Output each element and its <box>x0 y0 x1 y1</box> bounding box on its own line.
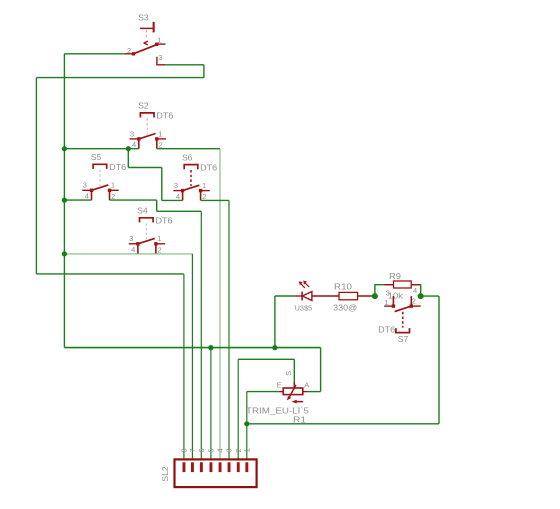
wire S6 pin2 right y200.4 <box>201 199 229 201</box>
junction at left rail y253.9 <box>62 251 67 256</box>
wire common rail to S5 pin4 <box>64 199 91 201</box>
wire S3 pin2 to left rail <box>64 53 124 55</box>
svg-text:4: 4 <box>131 245 135 254</box>
wire trimmer E horizontal <box>247 391 279 393</box>
svg-text:A: A <box>304 380 309 389</box>
junction at x246.8 y423.8 <box>244 421 249 426</box>
svg-text:S6: S6 <box>182 152 193 162</box>
wire common rail horizontal y347.6 <box>64 347 320 349</box>
wire right y211.3 <box>157 210 202 212</box>
wire R9 right to x439 <box>421 295 439 297</box>
wire to S6 pin4 y200.4 <box>162 199 183 201</box>
svg-text:4: 4 <box>176 192 180 201</box>
svg-text:S: S <box>284 371 293 376</box>
wire down x192.4 to connector pin 7 column <box>191 254 193 463</box>
svg-text:1: 1 <box>157 234 161 243</box>
svg-text:3: 3 <box>386 289 390 298</box>
svg-text:DT6: DT6 <box>156 216 173 226</box>
wire down x229 to connector pin 3 column <box>228 200 230 462</box>
connector pin 4 <box>219 462 222 472</box>
svg-text:4: 4 <box>216 448 225 452</box>
svg-text:S5: S5 <box>91 152 102 162</box>
connector pin 6 <box>200 462 203 472</box>
switch S3 <box>124 12 165 65</box>
svg-text:DT6: DT6 <box>156 111 173 121</box>
svg-text:DT6: DT6 <box>200 162 217 172</box>
svg-text:1: 1 <box>157 35 161 44</box>
svg-text:6: 6 <box>197 448 206 452</box>
junction at x374.9 y296.1 <box>372 293 378 299</box>
connector pin 8 <box>183 462 186 472</box>
wire far-left vertical x36.4 <box>35 78 37 274</box>
svg-text:4: 4 <box>85 192 89 201</box>
connector SL2 <box>160 459 257 487</box>
svg-text:SL2: SL2 <box>160 466 170 481</box>
wire y359.3 to trimmer wiper <box>238 358 294 360</box>
svg-text:U3$5: U3$5 <box>295 303 313 312</box>
wire LED anode horizontal <box>275 295 295 297</box>
junction at x420.7 y296.1 <box>418 293 424 299</box>
junction at x274.9 y347.6 <box>272 345 277 350</box>
wire down x210.9 to connector pin 4 column <box>210 348 212 463</box>
wire horizontal y423.8 <box>247 423 439 425</box>
svg-text:S3: S3 <box>138 12 149 22</box>
LED U3$5 <box>295 281 339 313</box>
wire trimmer A horizontal <box>308 391 321 393</box>
svg-text:S2: S2 <box>138 101 149 111</box>
svg-text:3: 3 <box>174 181 178 190</box>
svg-text:R10: R10 <box>334 283 353 292</box>
wire common rail to S2 pin4 <box>64 148 138 150</box>
svg-text:E: E <box>277 380 282 389</box>
svg-text:10k: 10k <box>388 290 404 300</box>
junction at left rail y148.7 <box>62 146 67 151</box>
wire down to connector pin 8 column <box>183 274 185 463</box>
svg-text:330@: 330@ <box>333 303 357 312</box>
svg-text:4: 4 <box>132 140 136 149</box>
connector pin 1 <box>245 462 248 472</box>
svg-text:3: 3 <box>159 53 163 62</box>
wire branch down from junction <box>127 149 129 168</box>
wire common rail to S4 bottom y254 <box>64 253 192 255</box>
pushbutton switch S4 (DT6) <box>129 206 173 255</box>
wire down x201.3 to connector pin 6 column <box>200 211 202 462</box>
wire down at x204 <box>203 65 205 78</box>
svg-text:1: 1 <box>158 129 162 138</box>
wire jog right y167.5 <box>128 167 162 169</box>
wire jog down x161.8 <box>161 168 163 201</box>
svg-text:3: 3 <box>83 181 87 190</box>
pushbutton switch S7 (DT6, rotated) <box>378 286 421 344</box>
resistor R9 10k <box>375 272 421 300</box>
svg-text:1: 1 <box>384 298 388 307</box>
pushbutton switch S5 (DT6) <box>82 152 126 201</box>
junction at x210.9 y347.6 <box>208 345 213 350</box>
svg-text:S7: S7 <box>398 334 409 344</box>
wire down x220 to connector pin 5 column <box>219 149 221 463</box>
svg-text:R9: R9 <box>389 272 402 281</box>
pushbutton switch S6 (DT6) <box>173 152 217 201</box>
wire down x320.6 to trimmer A <box>320 348 322 392</box>
svg-text:4: 4 <box>413 286 417 295</box>
svg-text:R1: R1 <box>293 414 306 424</box>
junction at x128.3 y148.7 <box>126 146 131 151</box>
wire up x274.9 to LED <box>274 296 276 348</box>
svg-text:2: 2 <box>158 245 162 254</box>
svg-text:3: 3 <box>129 234 133 243</box>
trimmer potentiometer R1 TRIM_EU-LI`5 <box>246 371 309 425</box>
svg-text:DT6: DT6 <box>109 162 126 172</box>
wire S2 pin2 to x220 <box>157 148 220 150</box>
svg-text:7: 7 <box>188 448 197 452</box>
wire trimmer E vertical x246.8 <box>246 392 248 463</box>
svg-text:1: 1 <box>202 181 206 190</box>
svg-text:DT6: DT6 <box>378 325 395 335</box>
wire down x439 <box>438 296 440 424</box>
svg-text:1: 1 <box>243 448 252 452</box>
wire down x238.2 to connector pin 2 column <box>237 359 239 462</box>
wire down x156.7 <box>156 200 158 211</box>
svg-text:S4: S4 <box>137 206 148 216</box>
wire down x294.3 to wiper S <box>293 359 295 382</box>
connector pin 7 <box>191 462 194 472</box>
svg-text:3: 3 <box>130 129 134 138</box>
wire long horizontal y77.6 <box>36 77 204 79</box>
pushbutton switch S2 (DT6) <box>130 101 174 150</box>
wire S5 pin2 right y200.1 <box>110 199 157 201</box>
connector pin 3 <box>228 462 231 472</box>
connector pin 2 <box>237 462 240 472</box>
wire left rail vertical (common net) <box>63 54 65 348</box>
connector pin 5 <box>210 462 213 472</box>
svg-text:3: 3 <box>225 448 234 452</box>
wire horizontal y273.9 <box>36 273 184 275</box>
svg-text:1: 1 <box>111 181 115 190</box>
svg-text:5: 5 <box>207 448 216 452</box>
svg-text:2: 2 <box>412 297 416 306</box>
resistor R10 330 <box>333 283 375 313</box>
junction at left rail y200.1 <box>62 198 67 203</box>
wire S3 pin3 right <box>165 64 204 66</box>
svg-text:2: 2 <box>127 46 131 55</box>
